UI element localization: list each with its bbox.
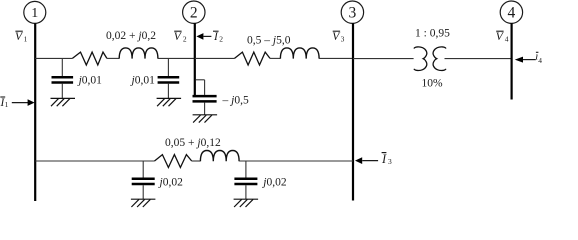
capacitor shunt left plates <box>52 77 74 82</box>
node V4 label <box>496 31 509 43</box>
capacitor shunt bottom-right lead top <box>245 161 247 178</box>
svg-text:0,02 + j0,2: 0,02 + j0,2 <box>106 30 156 42</box>
capacitor shunt left lead bottom <box>61 84 63 99</box>
capacitor shunt right (branch 1-2) lead top <box>167 58 169 76</box>
node V1 label <box>15 31 28 43</box>
svg-text:2: 2 <box>183 35 187 44</box>
wire resistor to inductor <box>107 57 119 59</box>
wire bus2 to resistor (branch 2-3) <box>195 57 235 59</box>
capacitor shunt bottom-right lead bottom <box>245 185 247 199</box>
ground left shunt <box>51 98 76 106</box>
svg-text:4: 4 <box>508 4 516 21</box>
current i4 label <box>535 50 542 65</box>
current I3 arrow <box>355 157 378 164</box>
svg-text:4: 4 <box>538 56 542 65</box>
bus 4 bar <box>511 23 513 99</box>
bus 3 circle <box>341 1 363 23</box>
svg-text:2: 2 <box>219 35 223 44</box>
current I3 label <box>381 152 392 166</box>
transformer coil left <box>414 47 427 71</box>
current i4 arrow <box>515 57 536 63</box>
capacitor shunt bottom-left lead bottom <box>142 185 144 199</box>
bus 4 circle <box>500 1 522 23</box>
capacitor -j0,5 plates <box>193 96 217 101</box>
wire resistor to inductor (branch 2-3) <box>270 57 280 59</box>
bus 2 bar <box>194 23 196 96</box>
capacitor shunt right lead bottom <box>167 84 169 99</box>
svg-text:3: 3 <box>341 35 345 44</box>
wire resistor to inductor (branch 1-3) <box>192 160 201 162</box>
resistor branch 1-2 <box>72 52 107 65</box>
ground bottom-left <box>131 199 156 207</box>
resistor branch 1-3 <box>155 155 192 168</box>
capacitor -j0,5 stub <box>196 79 205 81</box>
wire inductor to bus 3 <box>319 57 353 59</box>
bus 2 circle <box>183 1 205 23</box>
resistor branch 2-3 <box>235 52 271 65</box>
capacitor -j0,5 lead bottom <box>204 103 206 115</box>
transformer coil right <box>433 47 446 71</box>
svg-text:4: 4 <box>505 35 509 44</box>
capacitor shunt bottom-right plates <box>234 179 257 184</box>
wire transformer to bus 4 <box>445 58 512 60</box>
wire inductor to bus 2 <box>158 57 195 59</box>
svg-text:j0,02: j0,02 <box>261 176 287 188</box>
svg-text:j0,01: j0,01 <box>130 75 156 87</box>
capacitor shunt left (branch 1-2) lead top <box>61 58 63 76</box>
svg-text:j0,01: j0,01 <box>77 75 103 87</box>
current I1 arrow <box>12 99 35 106</box>
svg-text:10%: 10% <box>422 78 444 90</box>
capacitor shunt bottom-left plates <box>132 179 155 184</box>
bus 1 bar <box>34 23 36 201</box>
capacitor -j0,5 lead top <box>204 80 206 95</box>
ground -j0,5 <box>193 115 218 123</box>
svg-text:– j0,5: – j0,5 <box>222 94 249 106</box>
svg-text:1 : 0,95: 1 : 0,95 <box>415 27 450 39</box>
inductor branch 2-3 <box>280 48 319 59</box>
svg-text:j0,02: j0,02 <box>158 176 184 188</box>
inductor branch 1-2 <box>119 48 158 59</box>
svg-text:1: 1 <box>5 100 9 109</box>
ground right shunt <box>157 98 182 106</box>
svg-text:1: 1 <box>24 35 28 44</box>
svg-text:1: 1 <box>31 6 38 21</box>
wire inductor to bus 3 (bottom) <box>239 160 353 162</box>
svg-text:3: 3 <box>349 4 357 21</box>
bus 3 bar <box>352 23 354 200</box>
svg-text:0,05 + j0,12: 0,05 + j0,12 <box>165 137 221 149</box>
svg-text:I: I <box>381 152 387 166</box>
inductor branch 1-3 <box>200 151 239 162</box>
node V2 label <box>174 31 187 43</box>
svg-text:0,5 – j5,0: 0,5 – j5,0 <box>247 35 291 47</box>
node V3 label <box>332 31 344 43</box>
capacitor shunt right plates <box>158 77 180 82</box>
svg-text:2: 2 <box>190 4 198 21</box>
wire bus1 to resistor (branch 1-2) <box>35 57 72 59</box>
svg-text:3: 3 <box>388 157 392 166</box>
current I1 label <box>0 97 9 109</box>
wire bus 3 to transformer <box>353 58 414 60</box>
bus 1 circle <box>24 1 46 23</box>
capacitor shunt bottom-left lead top <box>142 161 144 178</box>
bottom branch wire bus1 to resistor <box>35 160 154 162</box>
ground bottom-right <box>234 199 259 207</box>
current I2 label <box>213 31 223 43</box>
current I2 arrow <box>196 33 211 40</box>
